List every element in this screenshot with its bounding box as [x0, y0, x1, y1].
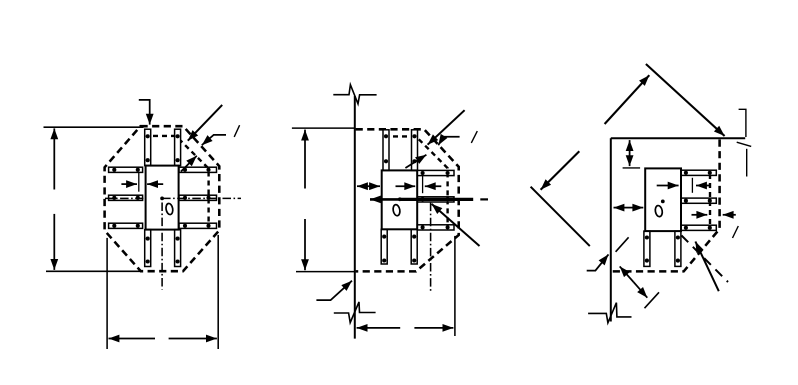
- left dimension line upper arrow F1: [53, 128, 55, 189]
- dashed octagon outline F2: [356, 129, 459, 271]
- bolt leader from bottom right F2: [432, 204, 480, 246]
- long diagonal leader F1: [188, 105, 222, 141]
- short bent leader F1: [202, 135, 226, 145]
- top small dim lower arrow F3: [629, 153, 631, 167]
- spacing tick line F3: [691, 178, 693, 193]
- up-right arrow leader F2: [405, 155, 426, 168]
- diagonal dim arrow lower F3: [634, 282, 648, 298]
- heavy centerline right segment F2: [400, 198, 473, 201]
- bottom-left vertical bolt F1: [145, 230, 151, 267]
- member rectangle F2: [382, 170, 418, 229]
- spacing arrow pointing right F2: [396, 185, 416, 187]
- bottom break symbol F2: [334, 302, 376, 323]
- vertical edge line F3: [610, 138, 612, 321]
- left row1 horizontal bolt F1: [109, 167, 143, 172]
- top-left vertical bolt F2: [383, 130, 389, 171]
- bolt dots top bolts F1: [146, 134, 150, 138]
- centerline end dash F2: [480, 198, 488, 200]
- roof leader left F3: [605, 75, 650, 124]
- top break symbol F2: [333, 85, 376, 104]
- right row2 horizontal bolt F2: [417, 197, 454, 202]
- bottom-left vertical bolt F2: [381, 229, 387, 264]
- inner dashed boundary F1: [144, 136, 209, 224]
- diagonal dim tick B F3: [645, 292, 660, 308]
- slash label F3: [733, 226, 739, 238]
- diagonal dashed line F3: [682, 236, 729, 283]
- right row1 horizontal bolt F2: [417, 170, 454, 175]
- spacing arrow pointing left F1: [147, 183, 163, 185]
- letter O label F2: [392, 204, 400, 216]
- bolt dots right rows F2: [421, 171, 425, 175]
- right row1 horizontal bolt F3: [681, 170, 716, 175]
- bottom dimension left arrow F2: [357, 327, 401, 329]
- right row2 horizontal bolt F1: [179, 195, 217, 200]
- top-right vertical bolt F2: [412, 130, 418, 171]
- spacing tick line F2: [422, 174, 424, 193]
- spacing arrow pointing right F3: [657, 185, 679, 187]
- left dim extension bottom F1: [46, 270, 141, 272]
- vertical centerline F1: [161, 203, 163, 290]
- left dimension line upper arrow F2: [304, 130, 306, 189]
- bottom-right vertical bolt F2: [411, 229, 417, 264]
- bottom dimension right arrow F1: [169, 338, 217, 340]
- corner diagonal line F3: [531, 187, 590, 246]
- edge line F2: [354, 96, 356, 339]
- top small dim upper arrow F3: [629, 140, 631, 152]
- right row3 horizontal bolt F3: [681, 225, 716, 230]
- center dot F1: [160, 197, 164, 201]
- bolt dots right rows F1: [183, 168, 187, 172]
- slash label F2: [471, 131, 477, 143]
- edge-to-member dim arrow right F2: [369, 185, 381, 187]
- bottom break symbol F3: [588, 303, 631, 323]
- top bent leader with down arrow F1: [139, 100, 150, 125]
- bottom-right vertical bolt F1: [175, 230, 181, 267]
- spacing arrow pointing left F3: [696, 185, 711, 187]
- short bent leader F2: [438, 137, 459, 145]
- dashed octagon outline F1: [105, 126, 220, 271]
- bolt dots bottom bolts F1: [146, 237, 150, 241]
- diagonal dim arrow upper F3: [620, 266, 634, 282]
- horizontal edge line F3: [611, 137, 745, 139]
- left small dim right arrow F3: [628, 207, 643, 209]
- bottom dim extension right F2: [454, 236, 456, 336]
- left dimension line lower arrow F2: [304, 219, 306, 270]
- bolt dots top bolts F2: [384, 134, 388, 138]
- left dim extension top F2: [292, 127, 355, 129]
- bottom dim extension right F1: [217, 235, 219, 349]
- edge leader bottom-left F3: [587, 254, 609, 270]
- letter O label F1: [165, 203, 173, 215]
- inner dashed boundary F3: [709, 174, 711, 226]
- right break lower mark F3: [746, 149, 748, 177]
- edge-to-member dim arrow left F2: [357, 185, 369, 187]
- left dim extension bottom F2: [296, 271, 355, 273]
- right row1 horizontal bolt F1: [179, 167, 217, 172]
- bottom dim extension left F1: [106, 238, 108, 349]
- vertical dash-dot line F2: [430, 203, 432, 291]
- right row2 horizontal bolt F3: [681, 198, 716, 203]
- left dim extension top F1: [44, 126, 144, 128]
- long diagonal leader F2: [428, 110, 465, 145]
- mid-left leader F3: [541, 151, 580, 190]
- bottom-left vertical bolt F3: [644, 231, 650, 266]
- member rectangle F3: [645, 168, 681, 231]
- left small dim left arrow F3: [614, 207, 629, 209]
- roof leader right F3: [646, 64, 725, 136]
- right row3 horizontal bolt F1: [179, 223, 217, 228]
- right row3 horizontal bolt F2: [417, 225, 454, 230]
- edge leader bottom-left F2: [316, 281, 352, 300]
- diagonal dim tick A F3: [616, 237, 629, 252]
- bottom dimension left arrow F1: [109, 338, 156, 340]
- top-left vertical bolt F1: [145, 129, 151, 165]
- bottom-right vertical bolt F3: [675, 231, 681, 266]
- bolt dots bottom bolts F3: [645, 235, 649, 239]
- spacing arrow pointing right F1: [121, 183, 137, 185]
- center dot F3: [661, 200, 665, 204]
- spacing tick line F1: [138, 172, 140, 191]
- left dimension line lower arrow F1: [53, 214, 55, 270]
- bottom dimension right arrow F2: [414, 327, 453, 329]
- horizontal centerline left segment F1: [105, 197, 144, 199]
- top small dim tick F3: [623, 167, 641, 169]
- spacing arrow pointing left F2: [425, 185, 442, 187]
- bolt dots left rows F1: [112, 168, 116, 172]
- up-right arrow leader F1: [181, 156, 197, 172]
- bolt dots bottom bolts F2: [382, 235, 386, 239]
- top-right vertical bolt F1: [175, 129, 181, 165]
- bolt dots right rows F3: [684, 171, 688, 175]
- right break upper mark F3: [739, 109, 746, 137]
- member rectangle F1: [146, 166, 179, 230]
- inner dashed boundary F2: [384, 136, 448, 224]
- left row3 horizontal bolt F1: [109, 223, 143, 228]
- heavy centerline with left arrow F2: [370, 198, 400, 201]
- dashed octagon outline F3: [612, 140, 720, 272]
- left row2 horizontal bolt F1: [109, 195, 143, 200]
- edge spacing arrow pointing left F3: [723, 214, 736, 216]
- horizontal centerline right segment F1: [162, 197, 241, 199]
- long leader bottom-right F3: [695, 242, 718, 292]
- slash label F1: [234, 125, 239, 137]
- letter O label F3: [654, 205, 663, 217]
- edge spacing arrow pointing right F3: [692, 214, 708, 216]
- right break zig F3: [737, 142, 752, 146]
- center dot F2: [398, 197, 402, 201]
